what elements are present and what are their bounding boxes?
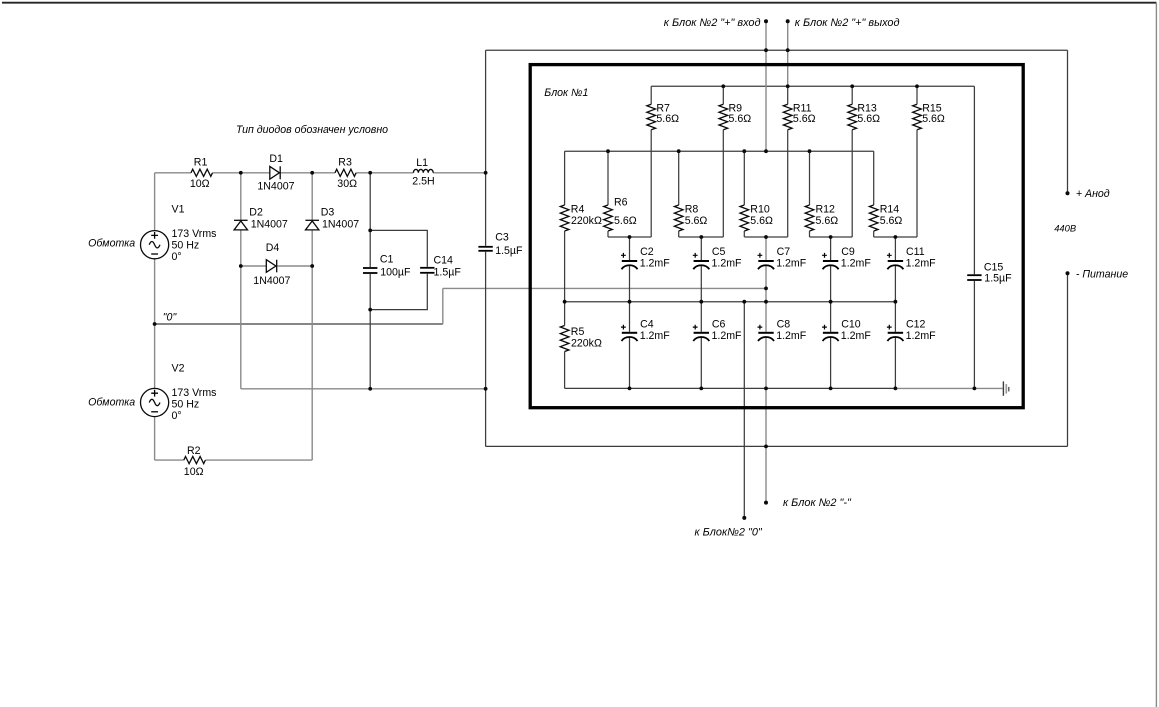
svg-text:5.6Ω: 5.6Ω: [793, 113, 816, 125]
svg-text:30Ω: 30Ω: [337, 178, 357, 190]
svg-text:50 Hz: 50 Hz: [172, 399, 200, 411]
svg-text:5.6Ω: 5.6Ω: [922, 113, 945, 125]
svg-text:к Блок№2 "0": к Блок№2 "0": [695, 527, 763, 539]
svg-text:220kΩ: 220kΩ: [571, 338, 602, 350]
svg-text:1.2mF: 1.2mF: [712, 330, 743, 342]
svg-text:173 Vrms: 173 Vrms: [172, 387, 217, 399]
svg-text:L1: L1: [416, 157, 428, 169]
svg-text:1.2mF: 1.2mF: [776, 257, 807, 269]
svg-text:5.6Ω: 5.6Ω: [614, 215, 637, 227]
svg-text:C2: C2: [640, 246, 654, 258]
svg-text:C3: C3: [495, 232, 509, 244]
svg-text:R8: R8: [685, 204, 699, 216]
svg-text:1N4007: 1N4007: [253, 275, 290, 287]
svg-text:R14: R14: [880, 204, 900, 216]
svg-text:2.5H: 2.5H: [412, 176, 434, 188]
svg-text:5.6Ω: 5.6Ω: [656, 113, 679, 125]
svg-text:Обмотка: Обмотка: [88, 238, 135, 250]
svg-text:1.2mF: 1.2mF: [776, 330, 807, 342]
svg-text:R5: R5: [571, 326, 585, 338]
svg-text:C6: C6: [712, 319, 726, 331]
svg-text:к Блок №2 "+" вход: к Блок №2 "+" вход: [664, 17, 761, 29]
svg-text:C14: C14: [434, 254, 454, 266]
svg-text:1.2mF: 1.2mF: [841, 330, 872, 342]
svg-text:C12: C12: [906, 319, 926, 331]
svg-text:C8: C8: [777, 319, 791, 331]
svg-text:R12: R12: [816, 204, 836, 216]
svg-text:1N4007: 1N4007: [251, 219, 288, 231]
svg-text:C15: C15: [984, 261, 1004, 273]
svg-text:5.6Ω: 5.6Ω: [880, 215, 903, 227]
svg-text:1.2mF: 1.2mF: [906, 257, 937, 269]
svg-text:1N4007: 1N4007: [257, 181, 294, 193]
svg-text:100µF: 100µF: [380, 267, 411, 279]
svg-text:5.6Ω: 5.6Ω: [685, 215, 708, 227]
svg-text:C10: C10: [841, 319, 861, 331]
svg-text:1.5µF: 1.5µF: [495, 245, 523, 257]
svg-text:173 Vrms: 173 Vrms: [172, 228, 217, 240]
svg-text:+ Анод: + Анод: [1076, 188, 1110, 200]
svg-text:R1: R1: [194, 157, 208, 169]
svg-text:C11: C11: [906, 246, 925, 258]
svg-text:R2: R2: [187, 445, 201, 457]
svg-text:5.6Ω: 5.6Ω: [750, 215, 773, 227]
svg-text:D1: D1: [269, 153, 283, 165]
svg-text:0°: 0°: [172, 251, 182, 263]
svg-text:D3: D3: [321, 207, 335, 219]
svg-text:"0": "0": [163, 312, 178, 324]
svg-text:1.2mF: 1.2mF: [640, 257, 671, 269]
svg-text:к Блок №2 "-": к Блок №2 "-": [783, 497, 852, 509]
svg-text:0°: 0°: [172, 410, 182, 422]
svg-text:10Ω: 10Ω: [190, 178, 210, 190]
svg-text:440В: 440В: [1054, 223, 1076, 234]
svg-text:C7: C7: [777, 246, 791, 258]
svg-text:R10: R10: [750, 204, 770, 216]
svg-text:C9: C9: [841, 246, 855, 258]
svg-text:D2: D2: [249, 207, 263, 219]
svg-text:Тип диодов обозначен условно: Тип диодов обозначен условно: [236, 124, 388, 136]
svg-text:- Питание: - Питание: [1076, 269, 1128, 281]
svg-text:Блок №1: Блок №1: [544, 87, 588, 99]
svg-text:R3: R3: [338, 157, 352, 169]
svg-text:10Ω: 10Ω: [184, 466, 204, 478]
svg-text:220kΩ: 220kΩ: [571, 215, 602, 227]
svg-text:1N4007: 1N4007: [322, 219, 359, 231]
svg-text:C5: C5: [712, 246, 726, 258]
svg-text:R6: R6: [614, 197, 628, 209]
svg-text:1.2mF: 1.2mF: [640, 330, 671, 342]
svg-text:1.2mF: 1.2mF: [712, 257, 743, 269]
svg-text:к Блок №2 "+" выход: к Блок №2 "+" выход: [795, 17, 900, 29]
svg-text:V1: V1: [172, 204, 185, 216]
svg-text:1.5µF: 1.5µF: [434, 266, 462, 278]
svg-text:V2: V2: [172, 363, 185, 375]
svg-text:C1: C1: [380, 253, 394, 265]
svg-text:5.6Ω: 5.6Ω: [729, 113, 752, 125]
svg-text:5.6Ω: 5.6Ω: [816, 215, 839, 227]
svg-text:D4: D4: [266, 242, 280, 254]
svg-text:50 Hz: 50 Hz: [172, 240, 200, 252]
svg-text:1.5µF: 1.5µF: [984, 273, 1012, 285]
svg-text:5.6Ω: 5.6Ω: [857, 113, 880, 125]
svg-text:1.2mF: 1.2mF: [841, 257, 872, 269]
svg-text:C4: C4: [640, 319, 654, 331]
svg-text:Обмотка: Обмотка: [88, 397, 135, 409]
svg-text:1.2mF: 1.2mF: [906, 330, 937, 342]
svg-text:R4: R4: [571, 204, 585, 216]
